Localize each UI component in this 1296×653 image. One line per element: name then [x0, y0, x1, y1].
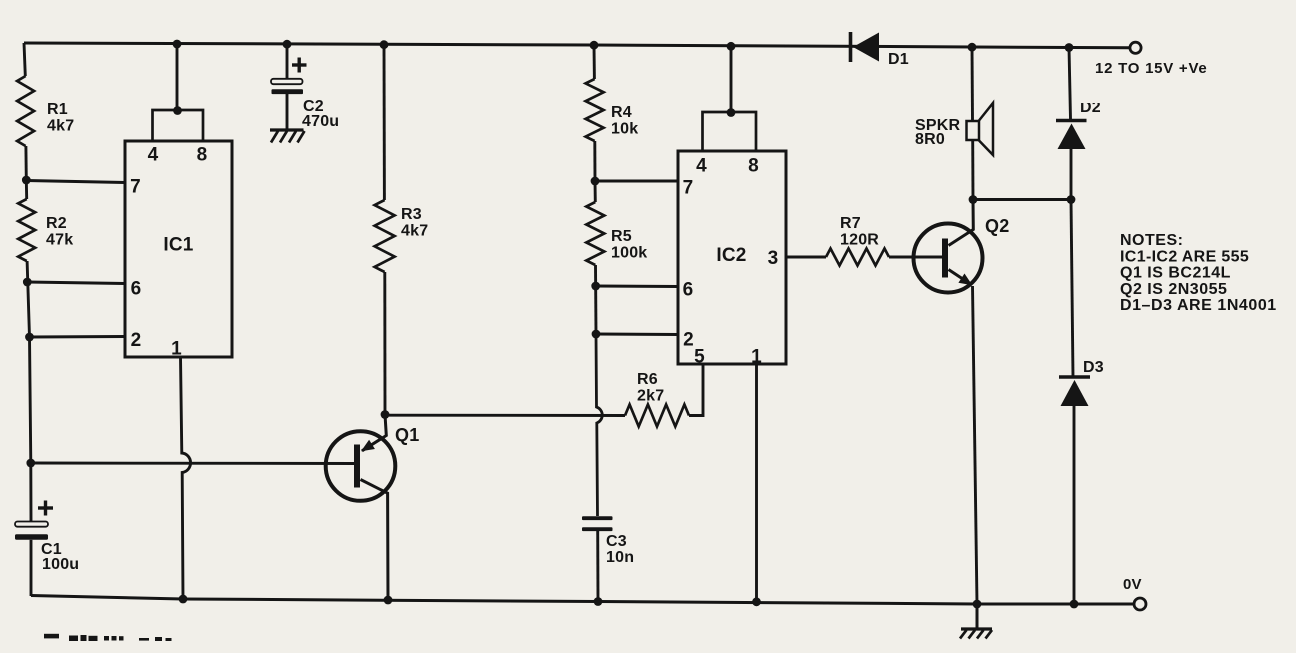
transistor Q2 collector lead: [949, 200, 974, 246]
node R3 / R6 / Q1 emitter: [381, 410, 390, 419]
svg-text:7: 7: [683, 178, 694, 199]
wire R5 to pin2 node: [594, 265, 597, 334]
svg-text:D3: D3: [1083, 359, 1104, 376]
wire IC2 pin 3 to R7: [786, 256, 826, 259]
wire C2 to ground: [286, 94, 289, 130]
node Q1 collector / bottom rail: [384, 596, 393, 605]
resistor R4: [586, 79, 604, 141]
wire Q2 collector node to D2 node: [973, 198, 1071, 201]
wire Q2 emitter to bottom rail: [973, 286, 978, 604]
node R4/R5/pin7 IC2: [591, 177, 600, 186]
transistor Q1 base bar: [354, 445, 360, 488]
node Q2 emitter / bottom rail: [973, 600, 982, 609]
svg-text:8R0: 8R0: [915, 131, 945, 148]
svg-text:R7: R7: [840, 215, 861, 232]
svg-text:10k: 10k: [611, 121, 638, 138]
wire C3 to bottom rail: [596, 531, 599, 602]
terminal +Ve: [1130, 42, 1141, 53]
svg-text:0V: 0V: [1123, 576, 1142, 593]
svg-text:NOTES:: NOTES:: [1120, 232, 1183, 249]
wire pin2 node down with hop to C3: [596, 334, 602, 516]
svg-text:4: 4: [148, 145, 159, 166]
svg-text:Q1 IS BC214L: Q1 IS BC214L: [1120, 265, 1231, 282]
wire top rail to R3: [383, 45, 386, 200]
wire top rail to R4: [593, 45, 596, 79]
svg-text:8: 8: [197, 145, 208, 166]
wire pin 6 IC1: [27, 282, 125, 284]
resistor R6: [625, 405, 689, 427]
capacitor C1 polarity +: [38, 506, 53, 509]
svg-text:C3: C3: [606, 533, 627, 550]
transistor Q1 body: [326, 431, 396, 501]
svg-text:IC1: IC1: [163, 235, 193, 256]
wire top rail to IC1 bracket: [176, 44, 179, 111]
svg-text:IC1-IC2 ARE 555: IC1-IC2 ARE 555: [1120, 248, 1249, 265]
transistor Q2 base bar: [942, 239, 948, 278]
diode D1: [849, 32, 853, 62]
svg-text:47k: 47k: [46, 232, 73, 249]
node R1/R2/pin7 junction: [22, 176, 31, 185]
node top rail / IC1 supply: [173, 40, 182, 49]
svg-text:4k7: 4k7: [401, 223, 428, 240]
svg-text:Q2 IS 2N3055: Q2 IS 2N3055: [1120, 281, 1227, 298]
op IC1 555 timer body: [125, 141, 232, 357]
wire D2 to link node: [1070, 149, 1073, 200]
resistor R7: [826, 249, 889, 266]
svg-text:D1: D1: [888, 51, 909, 68]
wire Q1 base lead: [31, 462, 355, 465]
svg-text:R5: R5: [611, 228, 632, 245]
wire R5 top stub: [594, 181, 597, 202]
capacitor C1: [15, 522, 48, 527]
svg-text:120R: 120R: [840, 232, 879, 249]
ground below Q2 emitter: [976, 604, 979, 629]
node D2 link right: [1067, 195, 1076, 204]
node pin1 / bottom rail: [179, 595, 188, 604]
transistor Q1 collector lead: [361, 480, 389, 601]
wire IC2 pins 4-8 supply bracket: [703, 112, 757, 151]
wire bottom 0V rail: [31, 596, 1134, 605]
svg-text:4: 4: [696, 156, 707, 177]
wire top +V rail: [24, 43, 1129, 48]
node top rail / C2: [283, 40, 292, 49]
wire R7 to Q2 base: [889, 256, 945, 259]
node top rail / D2: [1065, 43, 1074, 52]
svg-text:6: 6: [131, 279, 142, 300]
wire R6 to IC2 pin 5: [689, 364, 703, 416]
svg-text:4k7: 4k7: [47, 118, 74, 135]
svg-text:2k7: 2k7: [637, 388, 664, 405]
diode D3: [1059, 375, 1090, 379]
diode D2: [1056, 119, 1087, 123]
transistor Q1 emitter lead: [362, 415, 386, 451]
wire link node to D3: [1071, 200, 1073, 378]
wire R2 to C1: [27, 261, 31, 522]
terminal 0V: [1134, 598, 1146, 610]
label D2 (scan-clipped): [1080, 99, 1101, 116]
resistor R1: [17, 76, 34, 146]
node R5/pin6 IC2: [591, 282, 600, 291]
svg-text:470u: 470u: [302, 113, 339, 130]
svg-text:R4: R4: [611, 104, 632, 121]
cropped caption fragment bottom-left: [44, 634, 59, 639]
wire R4 to pin7 node: [593, 141, 596, 181]
node Q1-base wire junction: [26, 459, 35, 468]
wire pin 6 IC2: [596, 285, 678, 288]
wire top rail to IC2 bracket: [730, 46, 733, 112]
wire D3 to bottom rail: [1073, 406, 1076, 604]
svg-text:100u: 100u: [42, 556, 79, 573]
svg-text:Q2: Q2: [985, 216, 1009, 236]
resistor R2: [18, 199, 35, 261]
wire pin 7 IC1: [26, 181, 125, 183]
svg-text:R1: R1: [47, 101, 68, 118]
svg-text:R3: R3: [401, 206, 422, 223]
wire top rail to speaker: [971, 47, 974, 121]
wire IC1 pin 1 down with hop: [181, 357, 191, 599]
svg-text:6: 6: [683, 280, 694, 301]
svg-text:R6: R6: [637, 371, 658, 388]
wire pin 2 IC1: [30, 335, 126, 338]
svg-text:IC2: IC2: [716, 245, 746, 266]
wire Q1 node to R6: [385, 414, 625, 417]
wire R3 to Q1 emitter node: [383, 272, 386, 415]
node speaker / Q2 / D2 link left: [969, 195, 978, 204]
transistor Q2 body: [914, 224, 983, 293]
node top rail / R3: [380, 40, 389, 49]
node pin2 IC2 junction: [592, 330, 601, 339]
node top rail / R4: [590, 41, 599, 50]
svg-text:2: 2: [131, 330, 142, 351]
node pin2 junction: [25, 333, 34, 342]
node D3 / bottom rail: [1070, 600, 1079, 609]
speaker SPKR 8R0: [967, 121, 980, 140]
wire speaker to Q2 collector node: [971, 140, 974, 200]
wire R2 top stub: [25, 180, 28, 199]
svg-text:2: 2: [683, 330, 694, 351]
capacitor C3: [582, 516, 613, 520]
wire left vertical (top rail to R1): [24, 43, 25, 76]
resistor R3: [375, 200, 395, 272]
node C3 / bottom rail: [594, 597, 603, 606]
svg-text:100k: 100k: [611, 245, 647, 262]
node IC1 bracket junction: [173, 106, 182, 115]
capacitor C2: [271, 79, 303, 84]
svg-text:10n: 10n: [606, 549, 634, 566]
wire IC1 pins 4-8 supply bracket: [153, 110, 204, 141]
node R2/pin6 junction: [23, 278, 32, 287]
node top rail / IC2 supply: [727, 42, 736, 51]
ground below C2: [270, 128, 304, 131]
op IC2 555 timer body: [678, 151, 786, 364]
wire top rail to D2: [1069, 48, 1071, 120]
transistor Q2 emitter lead: [949, 270, 972, 285]
svg-text:1: 1: [171, 339, 182, 360]
wire top rail to C2: [286, 44, 289, 79]
wire pin 2 IC2: [596, 333, 678, 336]
svg-text:3: 3: [768, 248, 779, 269]
wire IC2 pin 1 to bottom rail: [755, 364, 758, 602]
wire pin 7 IC2: [595, 180, 678, 183]
wire R1 to node pin7: [24, 146, 27, 180]
svg-text:8: 8: [748, 156, 759, 177]
svg-text:7: 7: [130, 177, 141, 198]
svg-text:R2: R2: [46, 215, 67, 232]
resistor R5: [586, 202, 604, 265]
node IC2 pin1 / bottom rail: [752, 597, 761, 606]
capacitor C2 polarity +: [292, 63, 307, 66]
svg-text:D1–D3 ARE 1N4001: D1–D3 ARE 1N4001: [1120, 297, 1277, 314]
svg-text:Q1: Q1: [395, 425, 419, 445]
svg-text:12 TO 15V +Ve: 12 TO 15V +Ve: [1095, 60, 1207, 77]
node top rail / speaker: [968, 43, 977, 52]
wire C1 to bottom rail: [30, 540, 33, 596]
node IC2 bracket junction: [727, 108, 736, 117]
